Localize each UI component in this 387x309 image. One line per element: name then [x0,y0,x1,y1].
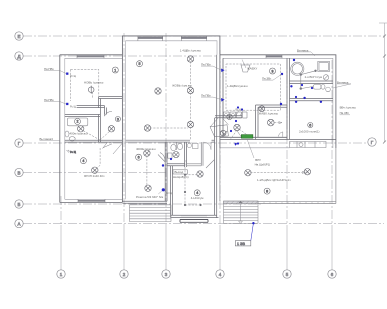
terrace outline [220,148,336,204]
light kitchen corner [259,106,265,112]
grid line D [23,55,217,57]
center block bottom wall x 122-167 [122,201,167,203]
room circle kitchen right [308,122,313,127]
wire right hall diagonals [230,129,250,140]
door swing bathroom center [158,153,165,163]
arrow near panel [234,143,237,146]
right block left wall [220,55,223,148]
right block inner wall lines [223,58,333,148]
interior partitions [65,55,333,218]
bubble 2 [120,270,128,278]
light room4 [92,167,98,173]
wire living room loop [226,64,281,110]
svg-text:7: 7 [229,115,231,119]
bathroom inner partition [176,142,178,150]
light room5 mid [187,87,193,93]
vertical wall x=99 between rooms [99,99,101,143]
label ZHAVHU leader [242,60,246,69]
right exterior stairs [224,201,259,223]
bubble G left [15,139,23,147]
right block: wc bottom y=99.5 [290,99,333,101]
svg-text:ВВч /сум.вш: ВВч /сум.вш [340,105,357,109]
right dimension line [384,23,386,142]
svg-text:ЖАВХУ: ЖАВХУ [247,67,257,71]
window left block bottom [78,200,105,202]
svg-text:1 ЭВ: 1 ЭВ [237,242,246,246]
svg-text:Вытяжка3: Вытяжка3 [40,137,54,141]
svg-text:4: 4 [196,191,198,195]
room circle 2 [75,118,81,124]
svg-text:Д: Д [17,54,20,59]
room circle 6 center [136,154,142,160]
wire room4 [97,148,100,169]
svg-text:ЖОВЬ /сум.вш: ЖОВЬ /сум.вш [172,83,192,87]
bubble 5 [283,270,291,278]
windows [77,36,282,202]
center block right wall inner lower [214,118,216,142]
wire junction dots [184,70,317,207]
grid line A [23,223,384,225]
stairwell bottom wall [171,215,219,217]
sink center bath [168,153,172,158]
right block bottom wall [220,137,336,139]
svg-text:400м /сум.вш: 400м /сум.вш [70,132,89,136]
light room5 mid-left [155,88,161,94]
center block outer wall [122,36,219,202]
svg-text:ВРУ: ВРУ [255,158,261,162]
grid line G-left-right [23,142,368,144]
bath junction dots [300,73,302,75]
bubble 1 [57,270,65,278]
grid line E [23,35,384,37]
window left block top [77,55,104,57]
svg-text:6: 6 [309,123,311,127]
svg-text:8: 8 [266,189,268,193]
svg-text:1-4ЩВх/сум.вш: 1-4ЩВх/сум.вш [227,84,248,88]
kitchen wire arrow [279,122,283,124]
socket room1 lower [66,103,68,105]
wc small room toilet [187,143,191,147]
stairwell left wall [171,166,173,218]
light room2 [78,126,84,132]
center block: bathroom box [167,142,187,167]
tub right bath [291,62,304,75]
bubble V [15,168,23,176]
wire hall diagonals [83,131,110,141]
stairwell right wall [215,55,217,218]
svg-text:Рс Щ: Рс Щ [70,151,77,154]
wire room1 loop [71,69,99,101]
wall room1 south y=97 [99,97,123,99]
kitchen counter strip [290,142,327,148]
light terrace left [245,170,251,176]
svg-text:3: 3 [117,117,119,121]
svg-text:4000м /сум.вш: 4000м /сум.вш [136,147,156,151]
window center top 2 [181,37,206,39]
SEV box [235,241,251,246]
svg-text:Б: Б [18,202,21,207]
junction dots stairwell [184,174,186,176]
basin room2 left [65,131,69,137]
bubble 4 [216,270,224,278]
window center top 1 [138,37,163,39]
light terrace right [304,169,310,175]
room circle 3 [115,116,120,121]
svg-text:4: 4 [82,159,84,163]
wc toilet rect [314,85,322,90]
light room5 low [144,125,150,131]
light center-left room upper [144,150,150,156]
wc row circles [225,114,228,117]
arrow living wall 2 [221,98,225,102]
wall room2/room4 y=141 [65,140,123,142]
svg-text:1: 1 [114,68,116,72]
wall stub right of stairwell door [212,140,215,142]
grid line B [23,203,262,205]
socket center bottom [162,188,165,191]
vertical wall x=99 upper stub [98,97,100,108]
grid axis lines [23,23,387,270]
wall stub x=105.5 [105,106,107,115]
room circle stairwell [194,190,200,196]
axis bubbles [15,32,376,278]
svg-text:Нв.Щх8(Р1): Нв.Щх8(Р1) [173,175,189,179]
right block outer walls [220,55,336,148]
right block: living room bottom wall y=116 [215,116,242,118]
svg-text:2: 2 [77,120,79,124]
bubble 6 [328,270,336,278]
grid line 6 vertical [331,60,333,225]
room circle 9 [270,68,276,74]
svg-text:1.4ЩВх /сум.вш: 1.4ЩВх /сум.вш [180,48,202,52]
bath junction wires [301,71,316,89]
svg-text:Розетка 5/3 640° б/ж: Розетка 5/3 640° б/ж [136,195,163,199]
bubble D [15,52,23,60]
grid line V [23,172,166,174]
switch room4 [67,150,77,154]
window right top [266,55,282,57]
terrace bottom edge with ticks [242,202,336,204]
wire terrace [250,172,305,174]
leader from socket center bottom [158,191,162,194]
arrow living wall 1 [221,69,225,73]
stair direction line [239,204,243,224]
wire stairwell to light [185,174,198,176]
light stairwell [197,171,203,177]
light kitchen [268,119,275,126]
door arc stairwell top [204,142,212,150]
wire center-left room [146,156,148,186]
svg-text:Рс Щ: Рс Щ [166,192,173,195]
wc bowl [326,87,331,92]
door swing room4 [103,142,123,154]
wire room1 to light [92,92,94,98]
grid line 3 vertical [165,33,167,225]
wire room5 horizontal [150,127,188,129]
svg-text:ЯГОП 2х40 40ч: ЯГОП 2х40 40ч [84,174,105,178]
furniture room2 counter [67,118,88,126]
wire stairwell vertical [185,160,199,205]
svg-text:НОВЬ /сум.вш: НОВЬ /сум.вш [84,81,104,85]
porch edge line [220,147,290,149]
center-left bottom room right wall [165,142,167,201]
svg-text:4-НО/сум: 4-НО/сум [191,196,204,200]
terrace left edge [219,148,221,201]
grid line 5 vertical [286,60,288,225]
wire room5 vertical [190,61,192,140]
light center-left room lower [145,185,151,191]
svg-text:Нв.Щх8(Р1): Нв.Щх8(Р1) [255,162,271,166]
room number circles [75,61,313,196]
room circle 5 [137,61,143,67]
vyhod box [173,170,187,174]
bubble 3 [162,270,170,278]
ceiling lights (circle-X) [78,56,311,192]
door swing stairwell top [206,160,215,169]
socket room1 upper [66,73,68,75]
svg-text:В: В [17,171,20,176]
wall room1/room2 y=115 [65,115,100,117]
svg-text:Выход: Выход [175,170,184,174]
svg-text:5: 5 [139,62,141,66]
kitchen door swing [279,132,283,137]
blue dot bath a [281,73,283,75]
shower right bath [318,61,330,71]
bubble B [15,200,23,208]
svg-text:2-я ВСП /сум: 2-я ВСП /сум [305,75,322,79]
svg-text:ЖАВХ /сум.вш: ЖАВХ /сум.вш [259,112,279,116]
wc toilet 2 center bath [177,143,182,149]
left block outer walls [60,55,123,203]
svg-text:А: А [17,222,20,227]
bathroom center light [173,152,179,158]
wc toilet 1 center bath [171,144,176,150]
left block inner wall lines [65,58,123,199]
bubble E [15,32,23,40]
svg-text:Е: Е [17,34,20,39]
room circle 1 [112,67,118,73]
stairwell porch [180,216,208,223]
wc fixture row right hall [224,112,248,118]
right block: bath/wc divider y=82 [290,81,333,84]
wardrobe living room [241,65,250,72]
light hall left [108,126,114,132]
room circle terrace [264,188,270,194]
svg-text:9: 9 [272,69,274,73]
terrace wire arrow [302,171,306,173]
blue riser line to SEV box [251,223,254,241]
tiny texts near sockets [70,75,173,195]
svg-text:1-яПодВлх /ДУ1мЧР1х1ч: 1-яПодВлх /ДУ1мЧР1х1ч [257,178,291,182]
light room5 top [187,56,193,62]
wire kitchen [274,122,280,124]
bubble G right [368,138,376,146]
wc small room wall [187,142,203,166]
power panel green [241,135,253,139]
room circle 4 [80,158,86,164]
pendant light room1 [88,87,94,93]
center block inner wall lines [126,41,217,200]
wall room1 south-west y=106.5 [77,106,105,108]
grid line 4 vertical [219,50,221,225]
grid line 2 vertical [123,33,125,225]
left exterior stairs [130,205,172,222]
terrace right edge [335,148,337,204]
light vanity [220,130,226,136]
right block: living/bath divider x=288 [287,58,290,139]
wall y=141 center block [126,140,190,142]
svg-text:Рс Щ: Рс Щ [70,105,77,108]
vanity counter right hall [210,125,228,137]
bubble A [15,219,23,227]
svg-text:Пв.ЗВт: Пв.ЗВт [340,111,350,115]
grid line 1 vertical [60,196,62,225]
svg-text:Рс Щ: Рс Щ [70,75,77,78]
drain circle right bath [323,75,328,80]
hall door swings [211,118,242,137]
light right hall [234,124,240,130]
door arc hall [105,111,113,116]
light room5 bottom [187,121,193,127]
wc small room sink [193,143,199,148]
wc bidet [321,84,325,89]
svg-text:6: 6 [138,156,140,160]
room circle right hall [227,114,232,119]
basin room2 [69,137,75,141]
kitchen walls [256,105,288,140]
svg-text:2х1000 тюля(1): 2х1000 тюля(1) [299,129,320,133]
